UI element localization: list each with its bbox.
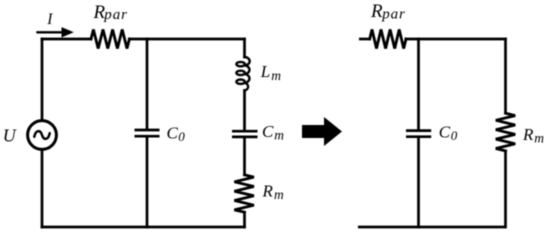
label Lm [260,62,282,83]
wire right-circuit bottom rail [358,226,506,229]
svg-text:C: C [167,123,179,142]
label Cm [262,122,284,143]
capacitor C0 (right) [406,131,431,137]
wire C0 branch (left) [146,39,149,227]
inductor Lm [236,57,249,91]
wire left vertical (source branch) [41,39,44,227]
label C0 (left) [167,123,186,144]
svg-text:m: m [271,68,281,83]
label Rm (right) [522,125,544,146]
resistor Rm (left) [234,175,254,212]
label U [3,125,17,145]
resistor Rpar (left) [91,30,129,49]
resistor Rm (right) [496,113,515,151]
svg-text:R: R [370,1,383,22]
current arrow I [38,27,74,37]
wire left-circuit bottom rail [42,226,245,229]
resistor Rpar (right) [370,30,406,49]
svg-text:R: R [262,182,274,201]
svg-text:U: U [3,125,17,145]
capacitor Cm [232,131,258,137]
label C0 (right) [439,122,458,143]
label Rpar (right) [370,1,406,22]
wire right branch of left circuit [243,39,246,227]
wire right-circuit top rail [359,38,506,41]
svg-text:R: R [522,125,534,144]
wire right branch of right circuit [504,39,507,227]
svg-text:C: C [262,122,274,141]
svg-text:0: 0 [451,128,458,143]
capacitor C0 (left) [135,130,160,136]
svg-text:m: m [534,131,544,146]
svg-text:par: par [381,6,406,22]
svg-text:I: I [46,11,53,28]
label Rm (left) [262,182,285,203]
svg-text:0: 0 [178,129,185,144]
transformation arrow [302,117,342,146]
svg-text:m: m [274,187,284,202]
svg-text:par: par [103,7,128,23]
svg-text:m: m [274,127,284,142]
label I [46,11,53,28]
wire C0 branch (right) [417,39,420,227]
label Rpar (left) [93,2,128,23]
wire left-circuit top rail [42,38,245,41]
voltage source U1 [28,121,57,150]
svg-text:L: L [260,62,270,81]
svg-text:C: C [439,122,451,141]
